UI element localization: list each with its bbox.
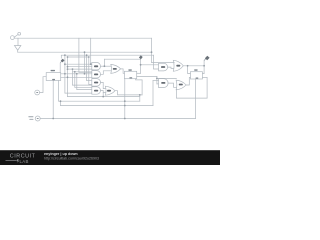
wire vertical x86.6 xyxy=(86,55,88,80)
OR gate R2 body xyxy=(176,80,186,90)
OR R2 label xyxy=(179,84,183,86)
U2 Q pin stub xyxy=(137,72,141,74)
svg-text:LAB: LAB xyxy=(20,159,29,164)
stub AND-R2 in1 xyxy=(153,80,159,82)
OR R1 label xyxy=(176,65,180,67)
AND R1 label xyxy=(161,66,165,68)
AND gate G2 output xyxy=(101,71,111,75)
source V1 circle xyxy=(35,116,40,121)
U3 right-lower stub xyxy=(202,77,207,79)
left FF U1 D pin wire to circle xyxy=(40,77,47,93)
U2 clock mark xyxy=(129,77,132,78)
wire ladder h1 y64.2 xyxy=(65,63,92,65)
wire stair riser x74.8 xyxy=(74,72,76,88)
AND R2 label xyxy=(161,82,165,84)
AND R1 output xyxy=(168,67,174,68)
wire x103.2 down to rail xyxy=(102,93,104,97)
AND gate G3 output xyxy=(101,82,106,88)
flag F3 pole xyxy=(203,61,205,74)
wire top rail y38.2 xyxy=(14,37,151,39)
wire stub G3 in2 xyxy=(89,83,92,85)
flag F2 head xyxy=(139,55,143,59)
wire OR-R1 upper input xyxy=(152,61,175,63)
OR R1 output rail xyxy=(183,65,204,67)
U3 clock mark xyxy=(196,78,199,79)
wire stair riser x72.5 xyxy=(72,69,74,85)
wire clock rail y118.5 xyxy=(40,118,195,120)
AND gate G1 output xyxy=(101,65,111,67)
right FF U3 body xyxy=(190,72,202,79)
bottom black bar xyxy=(0,150,220,165)
wire x207.1 down xyxy=(206,78,208,99)
wire y79.9 to U2 bottom right xyxy=(136,79,143,80)
U1 bottom pin x58.5 xyxy=(58,81,60,102)
AND gate G1 body xyxy=(92,63,101,70)
svg-text:http://circuitlab.com/caur92u2: http://circuitlab.com/caur92u26903 xyxy=(44,157,99,161)
wire x156.9 down xyxy=(156,76,158,84)
stub AND-R2 in2 xyxy=(157,83,159,85)
wire ladder h4 y71.8 xyxy=(73,71,92,73)
wire ladder h3 y69.1 xyxy=(68,68,92,70)
AND gate G4 body xyxy=(92,87,101,94)
OR2 label xyxy=(107,90,111,92)
AND gate R1 body xyxy=(159,63,168,71)
AND gate G3 body xyxy=(92,79,101,86)
U1 right pin A rail to G2 xyxy=(61,73,92,75)
switch SW1 terminal circle xyxy=(11,36,15,40)
U2 Qbar pin xyxy=(137,75,157,77)
wire G4 in3 rail y93.1 xyxy=(65,92,92,94)
wire jog x60.5 xyxy=(60,101,62,105)
gate G2 label xyxy=(94,74,98,76)
switch SW1 lever xyxy=(14,35,18,38)
AND gate G2 body xyxy=(92,71,101,78)
wire triangle tail xyxy=(17,50,19,52)
U1 clock mark xyxy=(52,79,55,80)
U3 clock pin down xyxy=(195,79,197,119)
wire stub G3 in1 xyxy=(87,79,92,81)
CLK circle mark xyxy=(36,92,38,93)
wire switch post down xyxy=(17,38,19,45)
gate G4 label xyxy=(94,90,98,92)
AND gate G4 output xyxy=(101,91,106,93)
wire rail y101.2 xyxy=(59,100,140,102)
wire rail y57 xyxy=(68,56,89,58)
junction dots xyxy=(52,51,205,119)
dark text dashes (unreadable labels) xyxy=(94,65,183,92)
U1 label xyxy=(51,70,55,71)
wire stub G2 in1 xyxy=(79,71,92,73)
CircuitLab logo xyxy=(6,154,36,165)
OR1 label xyxy=(113,68,117,70)
U3 label xyxy=(194,69,197,70)
OR gate OR1 body xyxy=(111,64,121,73)
V1 circle mark xyxy=(37,118,39,119)
wire x139.8 rise xyxy=(139,95,141,101)
gate G3 label xyxy=(94,82,98,84)
V1 value text line2 xyxy=(29,118,33,121)
wire rail y98.1 xyxy=(177,97,208,99)
wire vertical x151.5 xyxy=(151,38,153,62)
wire drop to AND-R1 in2 xyxy=(154,55,159,69)
wire rail y59.2 xyxy=(104,58,140,60)
middle FF U2 body xyxy=(124,71,136,78)
wire rail y105.5 xyxy=(61,105,154,107)
wire branch to U3 D xyxy=(188,66,191,74)
OR gate R1 body xyxy=(173,60,183,71)
wire stair h y87.3 xyxy=(75,86,92,88)
wire stair riser x76.8 xyxy=(76,74,78,90)
wire vertical x153 rise xyxy=(152,81,154,106)
wire ladder h2 y66.7 xyxy=(68,66,92,68)
left FF U1 clock bottom pin xyxy=(52,81,54,119)
U2 label xyxy=(128,69,131,70)
wire vertical x90.7 xyxy=(90,38,92,64)
wire vertical x140.6 down to U2 Q xyxy=(140,59,142,73)
left FF U1 body xyxy=(46,73,61,81)
flag F3 head xyxy=(204,56,209,61)
wire vertical x84.5 xyxy=(84,52,86,74)
AND R2 output xyxy=(168,83,177,87)
OR gate OR2 body xyxy=(105,86,115,95)
wire rail y96.6 xyxy=(68,96,140,98)
U1 right pin B rail to G2 xyxy=(61,76,92,78)
wire y64.8 to AND-R1 in1 xyxy=(141,64,159,66)
U2 bottom pin down xyxy=(124,79,126,119)
wire vertical x142.1 feedback xyxy=(141,80,143,95)
wire vertical x104.4 node xyxy=(103,59,105,66)
wire rail y55.2 xyxy=(61,54,153,56)
rail y78.4 to OR-R2 in1 xyxy=(157,77,177,79)
gate G1 label xyxy=(94,65,98,67)
OR R2 underside tail xyxy=(176,89,178,98)
riser x67.5 xyxy=(67,57,69,97)
wire vertical x88.8 xyxy=(88,57,90,84)
wire rail y52.2 xyxy=(18,51,152,53)
wire stair h y85.1 xyxy=(73,84,92,86)
flag F1 node flag on U1 top pin xyxy=(60,55,64,72)
wire stair h y89.5 xyxy=(77,89,92,91)
wire vertical x78.9 xyxy=(78,38,80,72)
riser x64.9 xyxy=(64,55,66,93)
svg-text:enyinger | up down: enyinger | up down xyxy=(44,152,78,156)
ground triangle xyxy=(14,46,21,51)
switch SW1 throw circle xyxy=(18,32,21,35)
clock source circle CLK1 xyxy=(35,90,40,95)
AND gate R2 body xyxy=(159,79,169,88)
V1 value text line1 xyxy=(28,115,33,118)
U3 Q stub xyxy=(202,73,204,75)
OR1 output wire to U2 D xyxy=(121,69,125,73)
OR R2 output to U3 lower-left pin xyxy=(186,78,190,86)
OR2 output loop xyxy=(115,91,142,95)
